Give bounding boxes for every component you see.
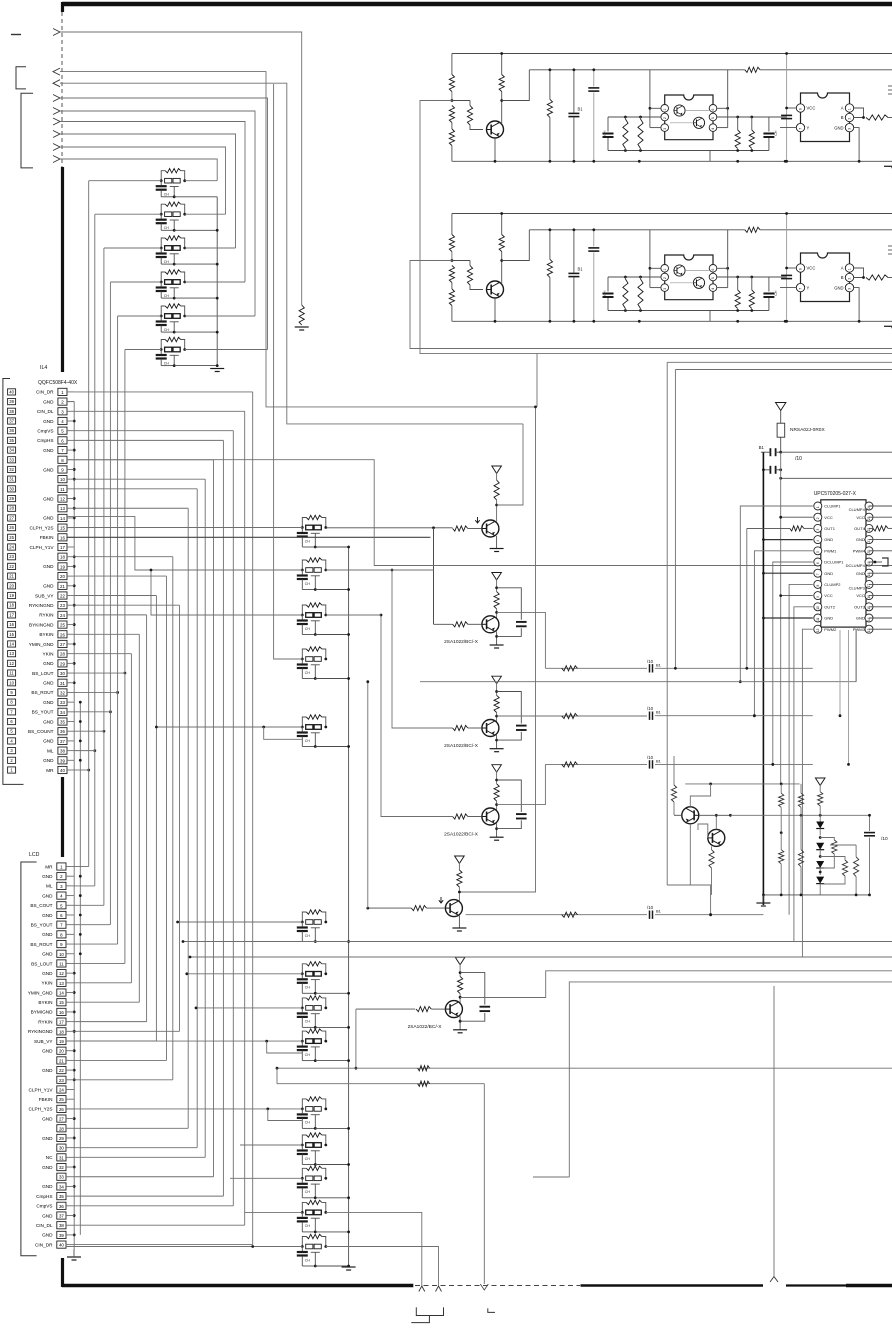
svg-text:CH: CH [164, 294, 170, 298]
resistor RS1 [623, 277, 628, 311]
svg-text:GND: GND [43, 584, 54, 589]
svg-text:GND: GND [42, 1116, 53, 1121]
wire bias left [430, 260, 452, 262]
junction [216, 263, 219, 266]
resistor RS2 [638, 277, 643, 311]
wire wrap 353 [537, 353, 892, 355]
wire T5 emitter [458, 916, 460, 929]
svg-text:CH: CH [305, 1020, 311, 1024]
svg-text:17: 17 [9, 612, 14, 617]
svg-text:VCC: VCC [824, 593, 833, 598]
bracket group1 [16, 67, 26, 89]
svg-text:CH: CH [603, 130, 607, 136]
wire FBKIN join [433, 528, 435, 625]
wire filter FL4 left feed [110, 281, 161, 283]
svg-text:YMIN_GND: YMIN_GND [28, 990, 53, 995]
svg-text:14: 14 [60, 516, 65, 521]
svg-text:OUT4: OUT4 [854, 526, 865, 531]
junction fb [347, 1196, 350, 1199]
svg-text:CmpVS: CmpVS [37, 428, 53, 433]
svg-text:LCD: LCD [29, 852, 40, 858]
wire FB3 feed [195, 1007, 303, 1010]
wire U1 pin5 wire [717, 276, 738, 278]
wire T2 collector out [497, 612, 546, 668]
junction T6c [459, 971, 462, 998]
junction T4c [495, 779, 498, 806]
ground T6 [453, 1030, 467, 1033]
svg-text:NRSA02J-0R0X: NRSA02J-0R0X [790, 427, 825, 433]
resistor RP1 [547, 228, 552, 322]
wire T2 cap2 [497, 628, 522, 636]
GND bus 1 [73, 402, 75, 1249]
svg-text:GND: GND [42, 893, 53, 898]
wire T2 cap [497, 588, 522, 620]
svg-text:26: 26 [9, 525, 14, 530]
capacitor B1_T2 [647, 659, 662, 673]
resistor T3 collector [494, 683, 499, 725]
svg-text:6: 6 [711, 108, 715, 110]
svg-text:4: 4 [711, 288, 715, 290]
wire U3 right 1 [869, 516, 892, 518]
wire FB9 out [326, 1247, 439, 1287]
power triangle T4 [492, 765, 502, 772]
svg-text:34: 34 [59, 1184, 64, 1189]
svg-text:31: 31 [9, 477, 14, 482]
pin B U2 [841, 113, 854, 121]
svg-text:33: 33 [9, 457, 14, 462]
wire arrow y=98 to riser [60, 98, 268, 350]
junction T3c [495, 690, 498, 717]
svg-text:RYKIN: RYKIN [38, 1019, 52, 1024]
resistor LR4 [798, 784, 803, 815]
wire U1 pin5 wire [717, 116, 738, 118]
capacitor T6 [480, 1007, 491, 1011]
connector IL4 left bracket [3, 379, 24, 785]
transistor Q10 [682, 807, 699, 824]
wire top rail [452, 213, 892, 215]
filter bottoms vertical [216, 197, 218, 367]
svg-text:CLUMP2: CLUMP2 [824, 582, 841, 587]
svg-text:12: 12 [60, 497, 65, 502]
wire bias2 [452, 260, 470, 262]
svg-text:B1: B1 [656, 710, 662, 715]
svg-text:GND: GND [43, 564, 54, 569]
diode chain D1-D4 [816, 822, 824, 895]
svg-text:YKIN: YKIN [42, 981, 53, 986]
wire T4 out2 [655, 763, 813, 766]
wire fb bottom [315, 1026, 348, 1028]
junction fm [347, 588, 350, 591]
junction [216, 229, 219, 232]
wire filter FL5 left feed [118, 315, 162, 317]
pin stubs [66, 392, 74, 1245]
wire sub2 bot [710, 309, 769, 312]
filter block FB1 [297, 910, 327, 943]
ground T5 [452, 928, 466, 931]
svg-text:2SA1022/BC/-X: 2SA1022/BC/-X [444, 831, 479, 837]
svg-text:21: 21 [59, 1058, 64, 1063]
wire T3 emitter [495, 735, 498, 749]
edge dashes block1 [888, 86, 892, 94]
svg-text:11: 11 [60, 487, 65, 492]
op-amp U1 body [665, 95, 713, 140]
svg-text:3: 3 [848, 128, 852, 130]
ground T2 [490, 645, 504, 648]
junction bias [451, 99, 454, 102]
svg-text:BYKIN: BYKIN [39, 632, 53, 637]
bracket bottom [411, 1307, 443, 1322]
wire T4 cap [497, 780, 522, 812]
svg-text:GND: GND [824, 616, 833, 621]
svg-text:2: 2 [663, 117, 667, 119]
svg-text:CH: CH [164, 361, 170, 365]
wire sub2 gnd [709, 311, 711, 322]
svg-text:/10: /10 [647, 905, 654, 910]
resistor R_arrow1 [299, 305, 304, 325]
resistor LR10 [830, 845, 859, 895]
wire 1084 [277, 1068, 484, 1284]
svg-text:39: 39 [9, 399, 14, 404]
svg-text:3: 3 [848, 288, 852, 290]
transistor T6 [445, 1001, 462, 1018]
svg-text:CH: CH [603, 290, 607, 296]
capacitor CH2 [763, 277, 778, 311]
wire fb bottom [315, 1231, 348, 1233]
resistor T1 base [453, 526, 482, 531]
transistor T4 [482, 808, 499, 825]
wire U3 pin5 [753, 551, 813, 717]
svg-text:CH: CH [305, 934, 311, 938]
svg-text:3: 3 [663, 128, 667, 130]
svg-text:5: 5 [711, 277, 715, 279]
resistor RB2 [449, 106, 454, 123]
svg-text:22: 22 [60, 593, 65, 598]
svg-text:5: 5 [711, 117, 715, 119]
svg-text:2: 2 [848, 118, 852, 120]
svg-text:12: 12 [9, 661, 14, 666]
wire bot rail ext [880, 160, 892, 162]
resistor T6 collector [458, 964, 463, 1006]
wire arrow<2 [60, 83, 523, 424]
svg-text:B1: B1 [759, 445, 765, 450]
svg-text:CIN_DL: CIN_DL [37, 409, 54, 414]
capacitor B1_T5 [647, 905, 662, 919]
wire U3 pin11 gnd [762, 617, 813, 620]
capacitor T4 [516, 814, 527, 818]
junction [216, 297, 219, 300]
svg-text:11: 11 [9, 671, 14, 676]
power triangle T5 [455, 856, 465, 863]
filter block FB3 [297, 996, 327, 1029]
filter block FL6 [156, 337, 186, 367]
filter block FL1 [156, 169, 186, 199]
svg-text:Y: Y [807, 285, 810, 290]
wire long 680 [420, 629, 856, 682]
svg-text:GND: GND [43, 681, 54, 686]
svg-text:CH: CH [305, 539, 311, 543]
wire Q10 col [690, 824, 712, 916]
svg-text:16: 16 [60, 535, 65, 540]
resistor Rmid [745, 67, 760, 72]
pin 3 U1 [661, 124, 669, 132]
wire wrap right1 [667, 362, 892, 885]
resistor T4 collector [494, 771, 499, 813]
svg-text:GND: GND [43, 467, 54, 472]
svg-text:B1: B1 [578, 267, 584, 272]
resistor LR7 [818, 784, 823, 821]
pin 4 U1 [709, 124, 717, 132]
bracket group2 [21, 93, 33, 168]
svg-text:7: 7 [816, 573, 820, 575]
svg-text:YMIN_GND: YMIN_GND [29, 642, 54, 647]
svg-text:7: 7 [799, 128, 803, 130]
svg-text:34: 34 [9, 448, 14, 453]
svg-text:10: 10 [816, 606, 820, 610]
filter block FL4 [156, 270, 186, 300]
bracket bottom2 [488, 1308, 495, 1312]
resistor Rmid [745, 227, 760, 232]
wire sub1 top [608, 276, 650, 279]
filter block FM5 [297, 715, 327, 748]
wire v786 [785, 212, 788, 323]
svg-text:CH: CH [305, 1224, 311, 1228]
GND bus junctions [73, 420, 82, 1237]
svg-text:29: 29 [59, 1136, 64, 1141]
vcc vertical [780, 452, 782, 784]
wire U3 pin2 vcc [779, 516, 813, 519]
wire riser to filter right [185, 180, 218, 182]
svg-text:29: 29 [9, 496, 14, 501]
resistor U3 out4 [869, 526, 892, 531]
svg-text:11: 11 [59, 961, 64, 966]
transistor Q_U1b [693, 117, 704, 128]
svg-text:27: 27 [9, 515, 14, 520]
filter block FL2 [156, 202, 186, 232]
frame left dashed border [61, 12, 63, 167]
resistor RB3 [449, 123, 454, 162]
wire wrap right2 [675, 370, 892, 669]
svg-text:2SA1022/BC/-X: 2SA1022/BC/-X [444, 743, 479, 749]
capacitor B1_T4 [647, 755, 662, 769]
resistor NRSA02J-0R0X [777, 411, 825, 453]
wire arrow y=121.5 to riser [60, 122, 245, 283]
svg-text:GND: GND [42, 1068, 53, 1073]
power triangle LR [815, 778, 825, 785]
wire Q10Q11 link [699, 814, 732, 817]
label T4 [444, 831, 479, 837]
svg-text:9: 9 [816, 596, 820, 598]
svg-text:6: 6 [799, 268, 803, 270]
junction fb [347, 940, 350, 943]
wire FM3 feed [150, 569, 303, 615]
wire pin16 FBKIN [67, 536, 430, 538]
svg-text:B1: B1 [656, 662, 662, 667]
wire long 565 [67, 460, 892, 566]
wire lcd9 long [182, 940, 892, 943]
transistor Q_U1b [693, 277, 704, 288]
wire bottom rail [452, 160, 880, 162]
wire riser to filter right [185, 281, 245, 283]
wire U1 pin2 feed [644, 276, 661, 278]
svg-text:2SA1022/BC/-X: 2SA1022/BC/-X [444, 639, 479, 645]
wire filter FL6 left feed [125, 349, 161, 351]
svg-text:GND: GND [834, 125, 843, 130]
transistor T5 [445, 900, 462, 917]
wire fm bottom [315, 746, 348, 748]
filter mid rail [348, 546, 350, 1266]
svg-text:B1: B1 [656, 909, 662, 914]
capacitor B1 bot [762, 466, 782, 474]
wire T1 base left [326, 526, 453, 529]
svg-text:29: 29 [60, 661, 65, 666]
svg-text:26: 26 [59, 1107, 64, 1112]
wire FB1 feed [176, 921, 302, 924]
svg-text:24: 24 [9, 545, 14, 550]
wire T3 cap2 [497, 732, 522, 740]
svg-text:18: 18 [9, 603, 14, 608]
wire QT collector [499, 54, 504, 125]
wire T4 emitter [495, 824, 498, 838]
transistor T5 arrowmark [439, 897, 443, 903]
wire arrow y=111 to riser [60, 111, 255, 316]
svg-text:18: 18 [59, 1029, 64, 1034]
frame bottom border bar right2 [846, 1284, 892, 1288]
frame bottom border bar left [62, 1284, 413, 1288]
IC U3 UPC570205-027-X [814, 491, 873, 633]
svg-text:MR: MR [46, 768, 54, 773]
svg-text:8: 8 [816, 584, 820, 586]
power triangle NRSA [776, 403, 786, 411]
pin 5 U1 [709, 273, 717, 281]
svg-text:30: 30 [59, 1146, 64, 1151]
polarity dash [11, 34, 21, 36]
svg-text:BS_ROUT: BS_ROUT [30, 942, 52, 947]
wire U3 pin7 gnd [762, 572, 813, 575]
wire U3 right 6 [869, 572, 892, 574]
resistor T4 base [453, 814, 482, 819]
svg-text:15: 15 [60, 526, 65, 531]
wire T5 out2 [655, 913, 763, 916]
junction fm [347, 546, 350, 549]
wire sub2 top [736, 116, 786, 119]
resistor RB1 [449, 54, 454, 101]
svg-text:37: 37 [59, 1214, 64, 1219]
wire block1 feed [420, 101, 537, 409]
wire FB2 feed [185, 972, 302, 975]
wire T5 base vert [366, 680, 369, 908]
junction fb [347, 992, 350, 995]
ground T3 [490, 749, 504, 752]
svg-text:14: 14 [9, 641, 14, 646]
svg-text:CH: CH [305, 1121, 311, 1125]
svg-text:GND: GND [856, 616, 865, 621]
svg-text:BS_LOUT: BS_LOUT [32, 671, 53, 676]
pin 3 U1 [661, 284, 669, 292]
svg-text:37: 37 [60, 739, 65, 744]
resistor RS3 [735, 117, 740, 149]
svg-text:CH: CH [305, 582, 311, 586]
transistor T3 [482, 720, 499, 737]
svg-text:CIN_DL: CIN_DL [36, 1223, 53, 1228]
junction fb [347, 1265, 350, 1268]
svg-text:UPC570205-027-X: UPC570205-027-X [814, 491, 857, 497]
transistor T1 arrowmark [475, 517, 479, 523]
transistor QT [487, 281, 504, 298]
svg-text:GND: GND [824, 571, 833, 576]
svg-text:37: 37 [9, 418, 14, 423]
connector arrow at y=71.6 [53, 68, 60, 75]
capacitor CH1 [603, 277, 614, 311]
svg-text:GND: GND [43, 661, 54, 666]
resistor T5 base [411, 906, 445, 911]
svg-text:BYMIGND: BYMIGND [31, 1010, 53, 1015]
wire Q11 base [698, 824, 708, 838]
svg-text:7: 7 [799, 288, 803, 290]
svg-text:IL4: IL4 [40, 365, 47, 371]
resistor LR6 [798, 815, 803, 895]
op-amp U2 body [801, 93, 850, 142]
junction fb [347, 1127, 350, 1130]
filter block FB2 [297, 962, 327, 995]
resistor T1 collector [494, 472, 499, 521]
wire lr base long [730, 814, 868, 817]
pin 1 U1 [661, 265, 669, 273]
svg-text:YKIN: YKIN [43, 651, 54, 656]
svg-text:PWM3: PWM3 [853, 627, 866, 632]
svg-text:28: 28 [9, 506, 14, 511]
svg-text:30: 30 [60, 671, 65, 676]
wire IL4 pin2 gnd [67, 401, 74, 403]
signal buses [87, 181, 252, 1245]
wire T4 out [497, 762, 647, 805]
svg-text:24: 24 [59, 1087, 64, 1092]
svg-text:VCC: VCC [807, 266, 816, 271]
svg-text:25: 25 [9, 535, 14, 540]
svg-text:34: 34 [60, 710, 65, 715]
svg-text:PWM4: PWM4 [853, 548, 866, 553]
wire pin15 to FM1 [67, 527, 302, 529]
capacitor CP2 [588, 68, 599, 162]
junction fb [347, 1026, 350, 1029]
svg-text:Y: Y [807, 125, 810, 130]
svg-text:27: 27 [60, 642, 65, 647]
wire U3 right 9 [869, 606, 892, 608]
svg-text:CIN_DR: CIN_DR [35, 1242, 53, 1247]
svg-text:GND: GND [43, 700, 54, 705]
wire U2 gnd [854, 288, 861, 323]
wire riser to filter right [185, 213, 226, 215]
capacitor CH1 [603, 117, 614, 151]
GND bus 2 [79, 702, 81, 1235]
resistor RS3 [735, 277, 740, 309]
svg-text:GND: GND [42, 952, 53, 957]
svg-text:18: 18 [60, 555, 65, 560]
edge dashes block2 [888, 246, 892, 254]
svg-text:10: 10 [9, 680, 14, 685]
connector arrow at y=111 [53, 108, 60, 115]
svg-text:12: 12 [59, 971, 64, 976]
filter block FB7 [297, 1166, 327, 1199]
junction bots [638, 320, 787, 323]
svg-text:17: 17 [60, 545, 65, 550]
wire mid rail [529, 229, 892, 231]
wire upc right drops [839, 630, 857, 766]
ground LCD bottom [67, 1249, 81, 1260]
junction bias [451, 259, 454, 262]
svg-text:GND: GND [42, 1136, 53, 1141]
svg-text:22: 22 [59, 1068, 64, 1073]
resistor R_AB [866, 115, 892, 120]
